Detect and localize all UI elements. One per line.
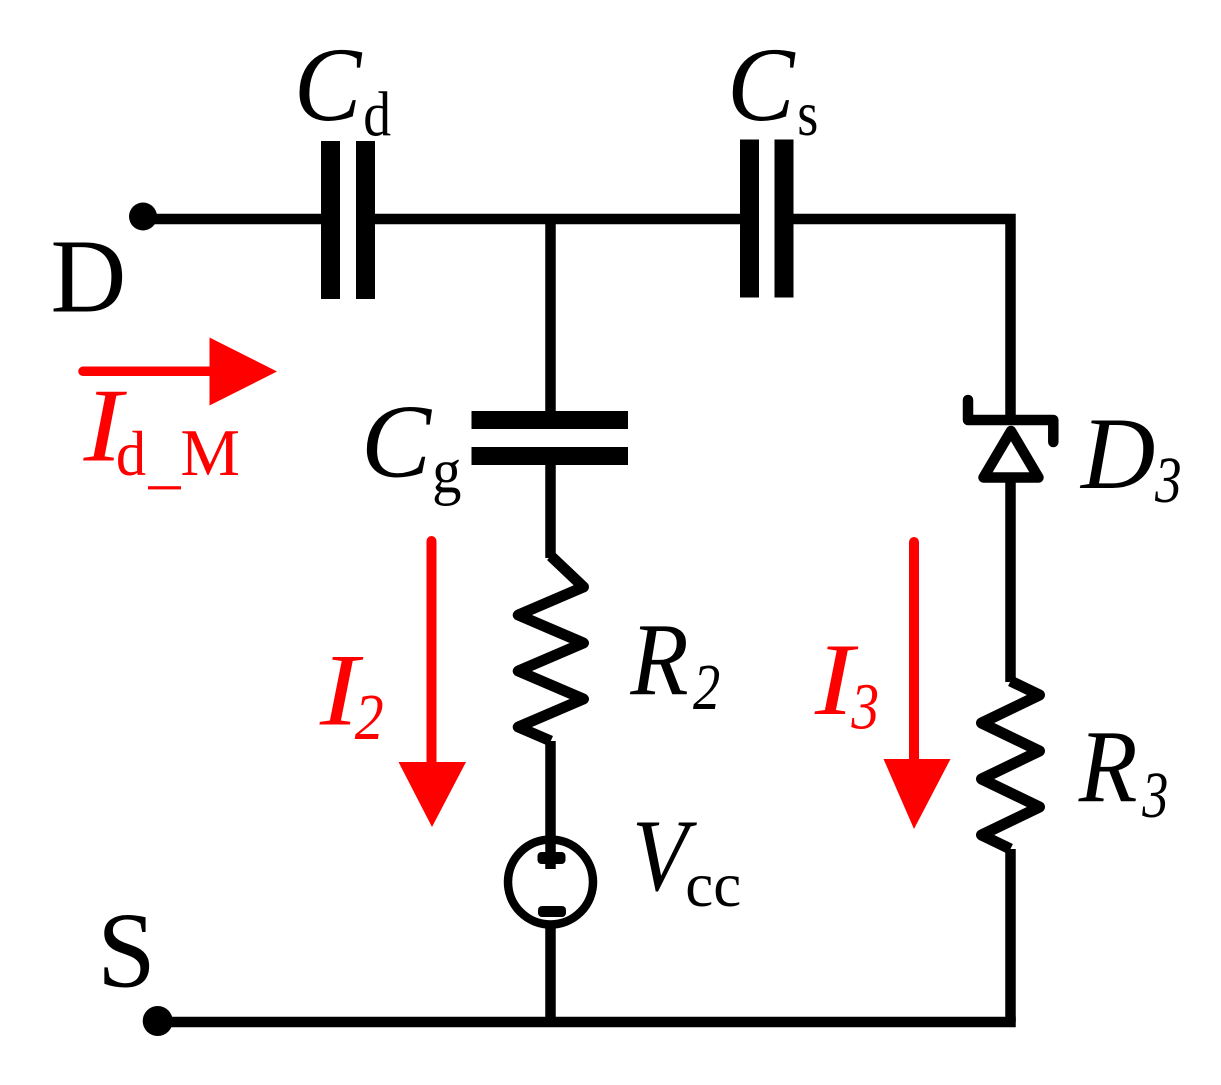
wire junction node to Cg xyxy=(545,219,556,412)
svg-text:3: 3 xyxy=(851,671,880,744)
svg-text:M: M xyxy=(180,416,240,490)
terminal S node dot xyxy=(143,1006,173,1036)
svg-text:R: R xyxy=(1078,710,1138,825)
wire Cs to top-right corner down to D3 xyxy=(792,219,1011,421)
label I3 (red) xyxy=(814,623,879,744)
label Cg xyxy=(361,383,461,507)
svg-text:C: C xyxy=(727,26,796,143)
svg-text:D: D xyxy=(1079,397,1155,511)
red arrow I3 xyxy=(884,542,951,829)
svg-text:cc: cc xyxy=(685,850,741,920)
label I2 (red) xyxy=(319,634,384,755)
label Id_M (red) xyxy=(82,367,239,491)
capacitor Cg xyxy=(472,411,629,465)
wire D to Cd xyxy=(143,214,323,225)
red arrow I2 xyxy=(399,541,467,827)
svg-text:s: s xyxy=(797,79,818,149)
svg-text:3: 3 xyxy=(1142,759,1169,832)
svg-text:C: C xyxy=(294,26,363,143)
zener diode D3 xyxy=(968,400,1053,478)
svg-text:C: C xyxy=(361,383,433,500)
label R3 xyxy=(1078,710,1169,833)
terminal D node dot xyxy=(129,203,157,231)
red arrow Id_M xyxy=(83,338,277,406)
label D3 xyxy=(1079,397,1182,517)
svg-text:d: d xyxy=(363,79,391,150)
svg-text:S: S xyxy=(97,892,155,1011)
wire Cd to junction to Cs xyxy=(373,214,742,225)
svg-text:2: 2 xyxy=(355,681,384,754)
wire Vcc to bottom xyxy=(545,924,556,1022)
wire Cg to R2 xyxy=(545,464,556,558)
label Vcc xyxy=(632,799,741,920)
svg-text:g: g xyxy=(432,437,461,507)
voltage source Vcc xyxy=(508,840,593,925)
label Cs xyxy=(727,26,818,149)
wire D3 to R3 xyxy=(1005,478,1016,682)
wire R2 to Vcc xyxy=(545,741,556,869)
svg-text:R: R xyxy=(629,603,688,718)
resistor R2 xyxy=(518,556,583,741)
resistor R3 xyxy=(982,681,1040,849)
svg-text:D: D xyxy=(51,218,127,335)
label Cd xyxy=(294,26,391,150)
label R2 xyxy=(629,603,720,725)
bottom wire S rail xyxy=(158,1017,1016,1028)
capacitor Cs xyxy=(740,140,794,298)
wire R3 to bottom-right corner xyxy=(1005,849,1016,1022)
svg-text:2: 2 xyxy=(693,651,720,724)
capacitor Cd xyxy=(321,141,375,299)
svg-text:d: d xyxy=(116,418,146,489)
svg-text:3: 3 xyxy=(1154,444,1181,517)
